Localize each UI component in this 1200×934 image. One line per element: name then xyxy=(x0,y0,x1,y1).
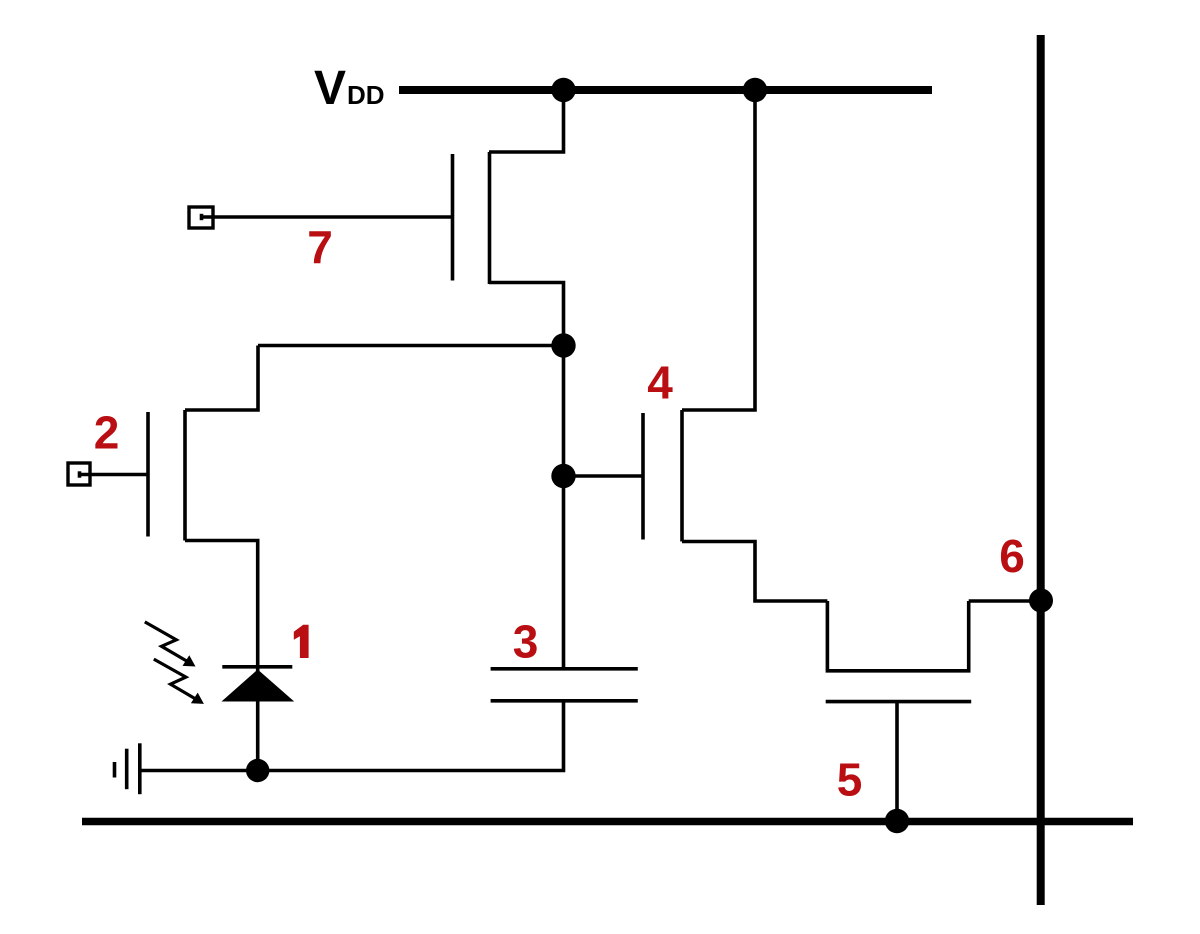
terminal square gate 2 xyxy=(68,463,90,485)
svg-text:7: 7 xyxy=(307,221,333,273)
junction dot VDD right xyxy=(743,78,767,102)
svg-text:5: 5 xyxy=(837,754,863,806)
transistor Q4 xyxy=(643,410,682,542)
wire node to drain Q2 xyxy=(258,344,564,348)
junction dot gate Q5 on row xyxy=(885,809,909,833)
bus row line (bottom) xyxy=(82,818,1133,826)
terminal square gate 7 xyxy=(189,207,213,228)
junction dot VDD left xyxy=(551,78,575,102)
wire capacitor bottom to ground node xyxy=(140,701,564,771)
junction dot sense node lower xyxy=(551,464,575,488)
label 1 xyxy=(294,625,309,658)
photon arrow 2 xyxy=(154,659,204,704)
transistor Q5 xyxy=(826,601,972,702)
junction dot node 6 xyxy=(1029,589,1053,613)
svg-text:2: 2 xyxy=(94,407,120,459)
junction dot sense node upper xyxy=(551,333,575,357)
wire source Q2 to photodiode to ground node xyxy=(185,541,258,771)
wire gate of Q7 xyxy=(202,214,453,220)
bus column line (right) xyxy=(1037,35,1045,905)
svg-text:DD: DD xyxy=(347,80,385,110)
wire source Q7 down to capacitor top xyxy=(489,283,564,669)
svg-text:4: 4 xyxy=(647,357,673,409)
capacitor C3 xyxy=(491,669,638,701)
transistor Q2 xyxy=(148,410,185,541)
power rail VDD xyxy=(399,86,932,94)
ground xyxy=(115,743,140,794)
wire gate of Q5 to row xyxy=(895,702,899,822)
label VDD xyxy=(314,62,385,115)
svg-text:V: V xyxy=(314,62,346,115)
wire drain Q2 xyxy=(185,346,258,411)
wire source Q5 to column xyxy=(969,599,1041,603)
junction dot photodiode anode node xyxy=(246,759,269,782)
photodiode D1 xyxy=(222,667,295,702)
photon arrow 1 xyxy=(145,622,196,667)
wire node to gate of Q4 xyxy=(564,474,644,478)
wire gate of Q2 xyxy=(80,471,149,477)
svg-text:6: 6 xyxy=(999,530,1025,582)
wire source Q4 to drain Q5 xyxy=(682,542,827,602)
wire drain Q4 to VDD xyxy=(682,90,755,410)
transistor Q7 xyxy=(453,152,490,284)
wire drain Q7 to VDD xyxy=(489,90,564,152)
svg-text:3: 3 xyxy=(513,616,539,668)
